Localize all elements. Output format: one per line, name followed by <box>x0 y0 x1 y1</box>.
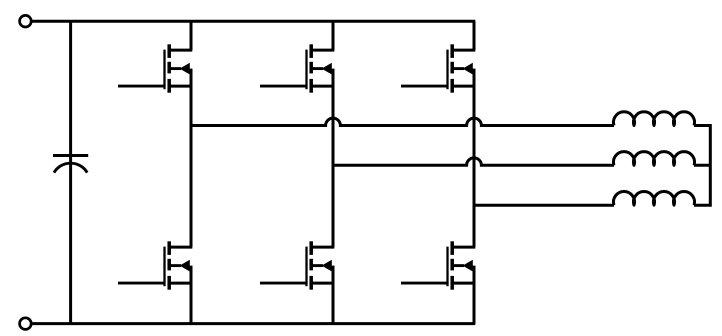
wire: leg 3 midpoint vertical (phase node) <box>473 86 476 247</box>
wire: phase A output with jumps over legs 2 and 3 <box>191 118 614 125</box>
inductor L3 (phase C load) <box>614 191 695 205</box>
wire: phase B output with jump over leg 3 <box>333 158 614 165</box>
wire: leg 1 source drop to bottom rail <box>190 283 193 324</box>
wire: leg 3 drain riser to top rail <box>473 21 476 50</box>
wire: leg 1 drain riser to top rail <box>190 21 193 50</box>
negative DC input terminal <box>20 318 32 330</box>
wire: leg 3 source drop to bottom rail <box>473 283 476 324</box>
wire: phase B load to neutral bus <box>694 164 710 167</box>
capacitor C1 (DC link) <box>53 156 88 173</box>
transistor Q2 (low side, phase A) <box>118 241 192 289</box>
inductor L2 (phase B load) <box>614 152 695 166</box>
wire: leg 2 drain riser to top rail <box>332 21 335 50</box>
positive DC input terminal <box>20 15 32 27</box>
transistor Q6 (low side, phase C) <box>401 241 475 289</box>
transistor Q1 (high side, phase A) <box>118 44 192 92</box>
transistor Q3 (high side, phase B) <box>260 44 334 92</box>
wire: bottom DC- rail <box>31 322 475 325</box>
wire: leg 1 midpoint vertical (phase node) <box>190 86 193 247</box>
wire: neutral bus joining load ends <box>694 126 710 206</box>
wire: phase C output <box>474 204 614 207</box>
transistor Q4 (low side, phase B) <box>260 241 334 289</box>
inductor L1 (phase A load) <box>614 112 695 126</box>
transistor Q5 (high side, phase C) <box>401 44 475 92</box>
wire: leg 2 midpoint vertical (phase node) <box>332 86 335 247</box>
wire: capacitor branch vertical <box>69 21 72 323</box>
wire: top DC+ rail <box>31 20 475 23</box>
wire: leg 2 source drop to bottom rail <box>332 283 335 324</box>
